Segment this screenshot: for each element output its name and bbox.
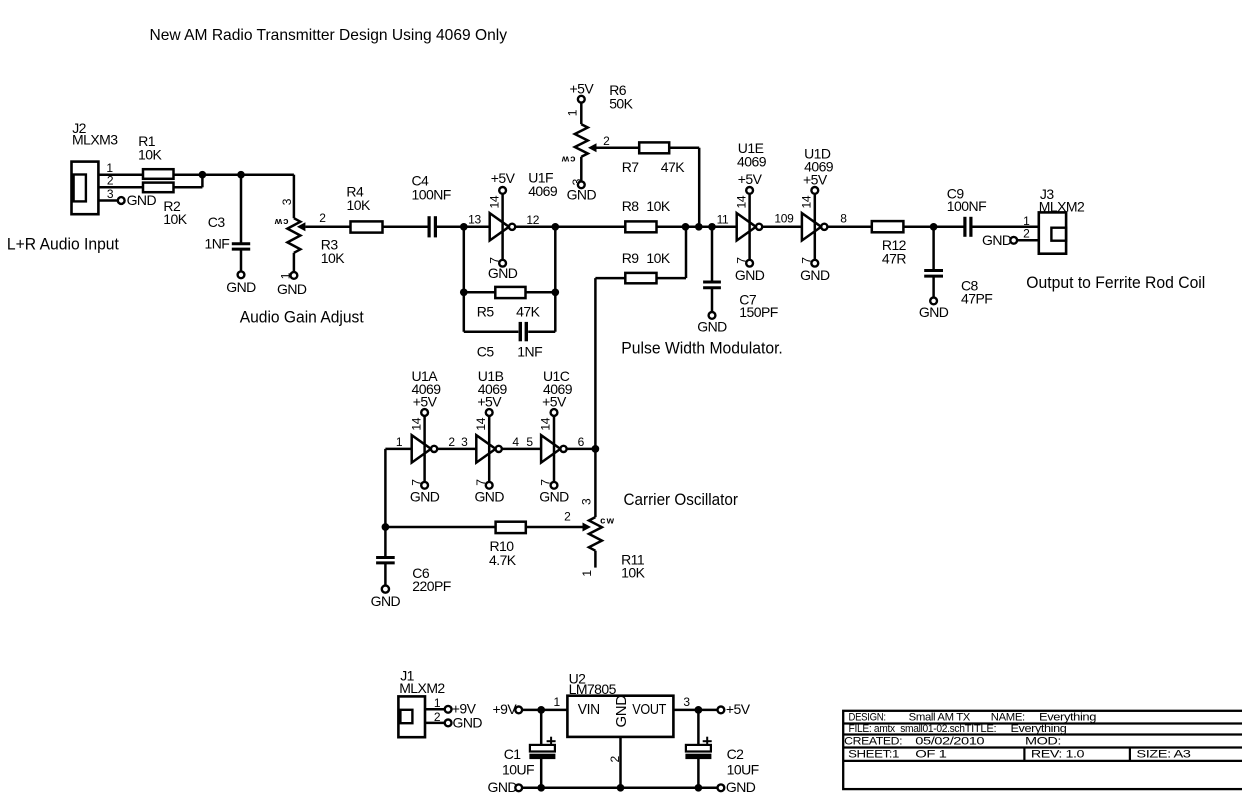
svg-text:10UF: 10UF [502, 762, 534, 778]
caption Output to Ferrite Rod Coil [1026, 273, 1205, 292]
svg-text:50K: 50K [609, 96, 633, 112]
regulator U2 body [567, 696, 673, 737]
svg-text:TITLE:: TITLE: [965, 723, 997, 735]
svg-text:+5V: +5V [569, 80, 594, 96]
J3 pin number 2 [1023, 227, 1030, 241]
wire +9V to U2 [522, 709, 567, 712]
gnd rail junction U2 [617, 784, 625, 792]
svg-text:3: 3 [461, 435, 468, 449]
U2 pin 2 label [608, 756, 622, 763]
U1D pin 14 label [800, 195, 814, 208]
value 47PF [961, 291, 992, 307]
svg-text:10K: 10K [621, 565, 645, 581]
wire node B to R3 [241, 173, 294, 176]
svg-text:LM7805: LM7805 [569, 681, 617, 697]
U2 VIN label [578, 701, 600, 718]
value 10K R1 [138, 146, 162, 162]
R11 cw marking [600, 516, 615, 527]
svg-text:150PF: 150PF [739, 304, 778, 320]
svg-text:100NF: 100NF [947, 198, 986, 214]
svg-text:1: 1 [554, 695, 561, 709]
label J3 [1040, 186, 1054, 202]
svg-text:10K: 10K [138, 146, 162, 162]
svg-text:3: 3 [579, 498, 593, 505]
svg-text:GND: GND [697, 318, 727, 334]
svg-text:C2: C2 [727, 746, 745, 762]
svg-text:FILE: amtx_small01-02.sch: FILE: amtx_small01-02.sch [849, 723, 965, 735]
svg-text:8: 8 [840, 211, 847, 225]
node E junction [682, 223, 690, 231]
wire node H down to C8 [932, 227, 935, 270]
svg-text:R8: R8 [622, 198, 640, 214]
U1A ground [410, 489, 440, 505]
wire R6 wiper to R7 [597, 147, 640, 150]
node C junction [460, 223, 468, 231]
R6 pin 1 wire [580, 103, 583, 125]
label C7 [739, 291, 757, 307]
R11 pin 3 wire [594, 449, 597, 517]
node D junction [551, 223, 559, 231]
svg-text:Carrier Oscillator: Carrier Oscillator [624, 490, 739, 509]
svg-text:1: 1 [566, 109, 580, 116]
value 47K R7 [661, 159, 685, 175]
wire node H to C9 [934, 226, 964, 229]
caption Carrier Oscillator [624, 490, 739, 509]
J2 pin 3 wire [98, 199, 117, 202]
svg-text:10K: 10K [646, 198, 670, 214]
label U1D [804, 146, 831, 162]
wire node K down to C6 [384, 527, 387, 557]
R3 pin 1 wire [293, 253, 296, 272]
wire node C to U1F [464, 226, 490, 229]
caption Audio Gain Adjust [240, 307, 364, 326]
ground C3 [226, 271, 256, 294]
svg-text:CREATED:: CREATED: [844, 736, 902, 748]
ground C8 [919, 298, 949, 321]
wire R9 left [595, 277, 625, 280]
wire C5 left [464, 331, 519, 334]
wire C3 to ground [240, 249, 243, 271]
wire node C down [463, 227, 466, 332]
R6 cw marking [560, 153, 575, 164]
svg-text:10K: 10K [646, 250, 670, 266]
J3 pin number 1 [1023, 214, 1030, 228]
svg-text:+5V: +5V [413, 394, 438, 410]
svg-text:2: 2 [1023, 227, 1030, 241]
title block row FILE [849, 723, 1067, 735]
capacitor C5 [520, 322, 526, 341]
ground J3 pin 2 [982, 232, 1017, 248]
resistor R10 [496, 522, 526, 533]
svg-text:6: 6 [578, 435, 585, 449]
svg-text:VOUT: VOUT [632, 701, 666, 718]
wire R7 down to node F [698, 148, 701, 227]
value 10K R9 [646, 250, 670, 266]
svg-text:DESIGN:: DESIGN: [849, 711, 886, 723]
label R1 [138, 133, 156, 149]
wire U2 out [673, 709, 717, 712]
svg-text:Everything: Everything [1011, 723, 1067, 735]
label R9 [622, 250, 640, 266]
capacitor C6 [376, 558, 395, 563]
U1C pin 14 label [539, 417, 553, 430]
wire R12 to node H [903, 226, 933, 229]
svg-text:14: 14 [474, 417, 488, 430]
wire C6 to ground [384, 563, 387, 586]
title block row CREATED [844, 736, 1061, 748]
svg-text:REV: 1.0: REV: 1.0 [1031, 749, 1084, 761]
value 10K R2 [163, 211, 187, 227]
resistor R7 [639, 142, 669, 153]
inverter U1B [476, 409, 502, 489]
svg-text:+5V: +5V [803, 171, 828, 187]
wire C5 right [528, 331, 555, 334]
svg-text:R9: R9 [622, 250, 640, 266]
wire R9 right [657, 277, 687, 280]
ground rail [522, 787, 717, 790]
label MLXM2 J1 [399, 680, 445, 696]
svg-text:13: 13 [468, 213, 481, 227]
R3 pin 3 label [280, 198, 294, 205]
J2 pin number 1 [106, 161, 113, 175]
label R7 [622, 159, 640, 175]
R5 junction left [460, 288, 468, 296]
resistor R5 [495, 287, 525, 298]
wire node A to node B [202, 173, 241, 176]
svg-text:cw: cw [273, 216, 288, 227]
inverter U1C [541, 409, 567, 489]
label LM7805 [569, 681, 617, 697]
wire C1 to gnd rail [540, 759, 543, 788]
wire node Q down to C2 [697, 710, 700, 745]
R6 pin 1 label [566, 109, 580, 116]
wire U1C out to node J [567, 448, 596, 451]
svg-text:GND: GND [539, 489, 569, 505]
svg-text:7: 7 [488, 257, 502, 264]
wire node E to U1E [686, 226, 737, 229]
svg-text:2: 2 [448, 435, 455, 449]
label J1 [400, 668, 414, 684]
svg-text:7: 7 [800, 257, 814, 264]
label R8 [622, 198, 640, 214]
R6 pin 3 wire [580, 157, 583, 182]
U1A pin 2 label [448, 435, 455, 449]
node Q junction [695, 706, 703, 714]
svg-text:R5: R5 [477, 304, 495, 320]
value 10UF C1 [502, 762, 534, 778]
R6 +5V supply [569, 80, 594, 102]
svg-text:GND: GND [735, 267, 765, 283]
svg-text:MLXM2: MLXM2 [399, 680, 445, 696]
capacitor C2 [686, 737, 712, 759]
wire node B down to C3 [240, 175, 243, 244]
capacitor C9 [965, 217, 971, 237]
node F junction [695, 223, 703, 231]
R6 pin 3 label [570, 178, 584, 185]
svg-text:1: 1 [580, 570, 594, 577]
capacitor C1 [530, 737, 556, 759]
caption Pulse Width Modulator [621, 338, 783, 357]
R6 pin 2 label [603, 134, 610, 148]
capacitor C4 [429, 216, 435, 237]
svg-text:1: 1 [434, 696, 441, 710]
svg-text:220PF: 220PF [412, 578, 451, 594]
wire node G down to C7 [711, 227, 714, 281]
svg-text:7: 7 [409, 479, 423, 486]
value 47R [882, 250, 906, 266]
U1E pin 14 label [735, 195, 749, 208]
svg-text:4.7K: 4.7K [489, 552, 517, 568]
J2 pin number 3 [107, 187, 114, 201]
svg-text:2: 2 [319, 211, 326, 225]
svg-text:47PF: 47PF [961, 291, 992, 307]
R11 pin 2 label [564, 509, 571, 523]
R6 wiper arrow [588, 143, 597, 152]
svg-text:+5V: +5V [477, 394, 502, 410]
U2 pin 2 wire [619, 737, 622, 788]
svg-text:05/02/2010: 05/02/2010 [915, 736, 984, 748]
potentiometer R3 body [287, 218, 300, 253]
R3 pin 1 label [278, 272, 292, 279]
J1 GND label [453, 714, 483, 730]
R3 cw marking [273, 216, 288, 227]
wire R9 left down to oscillator [594, 278, 597, 449]
ground J2 pin 3 [118, 192, 157, 208]
label U1F [528, 170, 553, 186]
value 100NF C9 [947, 198, 986, 214]
U1D 4069 label [804, 159, 834, 175]
wire C7 to ground [711, 288, 714, 312]
U1B ground [474, 489, 504, 505]
svg-text:12: 12 [526, 213, 539, 227]
svg-text:14: 14 [409, 417, 423, 430]
U1F +5V label [491, 170, 516, 186]
label R2 [163, 198, 181, 214]
U1C ground [539, 489, 569, 505]
value 10K R11 [621, 565, 645, 581]
U1C 4069 label [543, 381, 573, 397]
label C3 [208, 214, 226, 230]
value 10K R3 [321, 250, 345, 266]
wire R2 up to node A [201, 175, 204, 188]
wire R2 right [174, 186, 203, 189]
svg-text:4069: 4069 [737, 154, 767, 170]
U1B pin 14 label [474, 417, 488, 430]
svg-text:GND: GND [410, 489, 440, 505]
svg-text:GND: GND [982, 232, 1012, 248]
value 1NF C5 [517, 343, 542, 359]
label U1E [738, 140, 764, 156]
svg-text:C5: C5 [477, 343, 495, 359]
wire R8 to node E [657, 226, 686, 229]
svg-text:MLXM3: MLXM3 [72, 131, 118, 147]
U1B pin 7 label [474, 479, 488, 486]
U1D pin 8 label [840, 211, 847, 225]
title block row DESIGN [849, 711, 1097, 723]
svg-text:SIZE: A3: SIZE: A3 [1136, 749, 1190, 761]
label J2 [72, 120, 86, 136]
wire C2 to gnd rail [697, 759, 700, 788]
label R3 [321, 237, 339, 253]
label C4 [412, 172, 430, 188]
U1F pin 13 label [468, 213, 481, 227]
inverter U1E [737, 187, 763, 267]
value 220PF [412, 578, 451, 594]
node G junction [708, 223, 716, 231]
U1C pin 7 label [539, 479, 553, 486]
wire R10 to R11 wiper [526, 526, 583, 529]
label MLXM3 [72, 131, 118, 147]
svg-text:10K: 10K [163, 211, 187, 227]
U1E ground [735, 267, 765, 283]
value 150PF [739, 304, 778, 320]
resistor R2 [143, 183, 174, 193]
svg-text:1: 1 [396, 435, 403, 449]
label R10 [490, 538, 515, 554]
sheet title text [150, 27, 508, 44]
svg-text:L+R Audio Input: L+R Audio Input [7, 234, 119, 253]
label U1A [412, 368, 439, 384]
R11 pin 1 wire [594, 551, 597, 568]
svg-text:7: 7 [735, 257, 749, 264]
R3 pin 3 wire [293, 175, 296, 219]
label C8 [961, 278, 979, 294]
R3 wiper arrow [297, 222, 306, 231]
title block frame [843, 711, 1242, 789]
svg-text:14: 14 [800, 195, 814, 208]
wire U1B to U1C [502, 448, 541, 451]
svg-text:GND: GND [277, 281, 307, 297]
svg-text:100NF: 100NF [412, 187, 451, 203]
svg-text:Pulse Width Modulator.: Pulse Width Modulator. [621, 338, 783, 357]
wire R9 up to node E [685, 227, 688, 278]
value 1NF [205, 236, 230, 252]
U2 pin 1 label [554, 695, 561, 709]
svg-text:10UF: 10UF [727, 762, 759, 778]
svg-text:+5V: +5V [726, 701, 751, 717]
U1D ground [800, 267, 830, 283]
node B junction [237, 171, 245, 179]
R3 pin 2 label [319, 211, 326, 225]
svg-text:C3: C3 [208, 214, 226, 230]
J2 pin 2 wire [98, 186, 143, 189]
svg-text:3: 3 [280, 198, 294, 205]
U1B 4069 label [478, 381, 508, 397]
J2 pin 1 wire [98, 173, 143, 176]
caption L+R Audio Input [7, 234, 119, 253]
wire to R5 left [464, 291, 496, 294]
capacitor C8 [924, 271, 943, 277]
svg-text:2: 2 [564, 509, 571, 523]
svg-text:1NF: 1NF [517, 343, 542, 359]
wire U1A input down [384, 449, 387, 527]
ground terminal left [488, 779, 523, 795]
svg-text:47R: 47R [882, 250, 906, 266]
U1E pin 7 label [735, 257, 749, 264]
svg-text:47K: 47K [516, 304, 540, 320]
gnd rail junction Q2 [695, 784, 703, 792]
ground C6 [371, 586, 401, 610]
U1D pin 7 label [800, 257, 814, 264]
capacitor C7 [703, 282, 721, 288]
ground R3 [277, 272, 307, 297]
svg-text:NAME:: NAME: [991, 711, 1025, 723]
node J junction [592, 445, 600, 453]
R11 pin 1 label [580, 570, 594, 577]
J1 pin 2 wire [425, 722, 445, 725]
resistor R1 [143, 169, 174, 179]
svg-text:7: 7 [539, 479, 553, 486]
svg-text:GND: GND [613, 695, 630, 728]
node A junction [199, 171, 207, 179]
U1C pin 6 label [578, 435, 585, 449]
label R12 [882, 237, 907, 253]
svg-text:R7: R7 [622, 159, 640, 175]
U1A 4069 label [412, 381, 442, 397]
connector J2 body [72, 162, 99, 215]
U1B +5V label [477, 394, 502, 410]
wire R1 to node A [174, 173, 203, 176]
svg-text:GND: GND [567, 186, 597, 202]
wire U1A input [385, 448, 411, 451]
wire node D down [554, 227, 557, 332]
value 10UF C2 [727, 762, 759, 778]
label R5 [477, 304, 495, 320]
svg-text:cw: cw [600, 516, 615, 527]
svg-text:5: 5 [526, 435, 533, 449]
svg-text:cw: cw [560, 153, 575, 164]
svg-text:1NF: 1NF [205, 236, 230, 252]
svg-text:VIN: VIN [578, 701, 600, 718]
svg-text:GND: GND [800, 267, 830, 283]
svg-text:10K: 10K [321, 250, 345, 266]
R11 wiper arrow [583, 523, 592, 532]
node P junction [537, 706, 545, 714]
inverter U1D [802, 187, 828, 267]
wire node K to R10 [385, 526, 495, 529]
resistor R8 [625, 221, 656, 232]
svg-text:MOD:: MOD: [1025, 736, 1061, 748]
J3 pin 2 wire [1017, 239, 1039, 242]
connector J1 body [398, 696, 425, 737]
svg-text:2: 2 [603, 134, 610, 148]
svg-text:GND: GND [371, 593, 401, 609]
U1C pin 5 label [526, 435, 533, 449]
svg-text:2: 2 [608, 756, 622, 763]
label U2 [569, 671, 587, 687]
R5 junction right [551, 288, 559, 296]
J1 pin 2 circle [445, 720, 452, 727]
U2 pin 3 label [683, 695, 690, 709]
value 10K R4 [347, 197, 371, 213]
value 10K R8 [646, 198, 670, 214]
J1 +9V label [452, 701, 477, 717]
wire C8 to ground [932, 276, 935, 297]
wire R4 to C4 [383, 226, 428, 229]
U1F pin 7 label [488, 257, 502, 264]
svg-text:Audio Gain Adjust: Audio Gain Adjust [240, 307, 364, 326]
U2 VOUT label [632, 701, 666, 718]
J1 pin 1 wire [425, 708, 445, 711]
potentiometer R11 body [589, 517, 602, 551]
svg-text:GND: GND [127, 192, 157, 208]
svg-text:7: 7 [474, 479, 488, 486]
svg-text:Small AM TX: Small AM TX [909, 711, 971, 723]
value 47K R5 [516, 304, 540, 320]
svg-text:4069: 4069 [528, 183, 558, 199]
svg-text:14: 14 [488, 195, 502, 208]
svg-text:C1: C1 [504, 746, 522, 762]
